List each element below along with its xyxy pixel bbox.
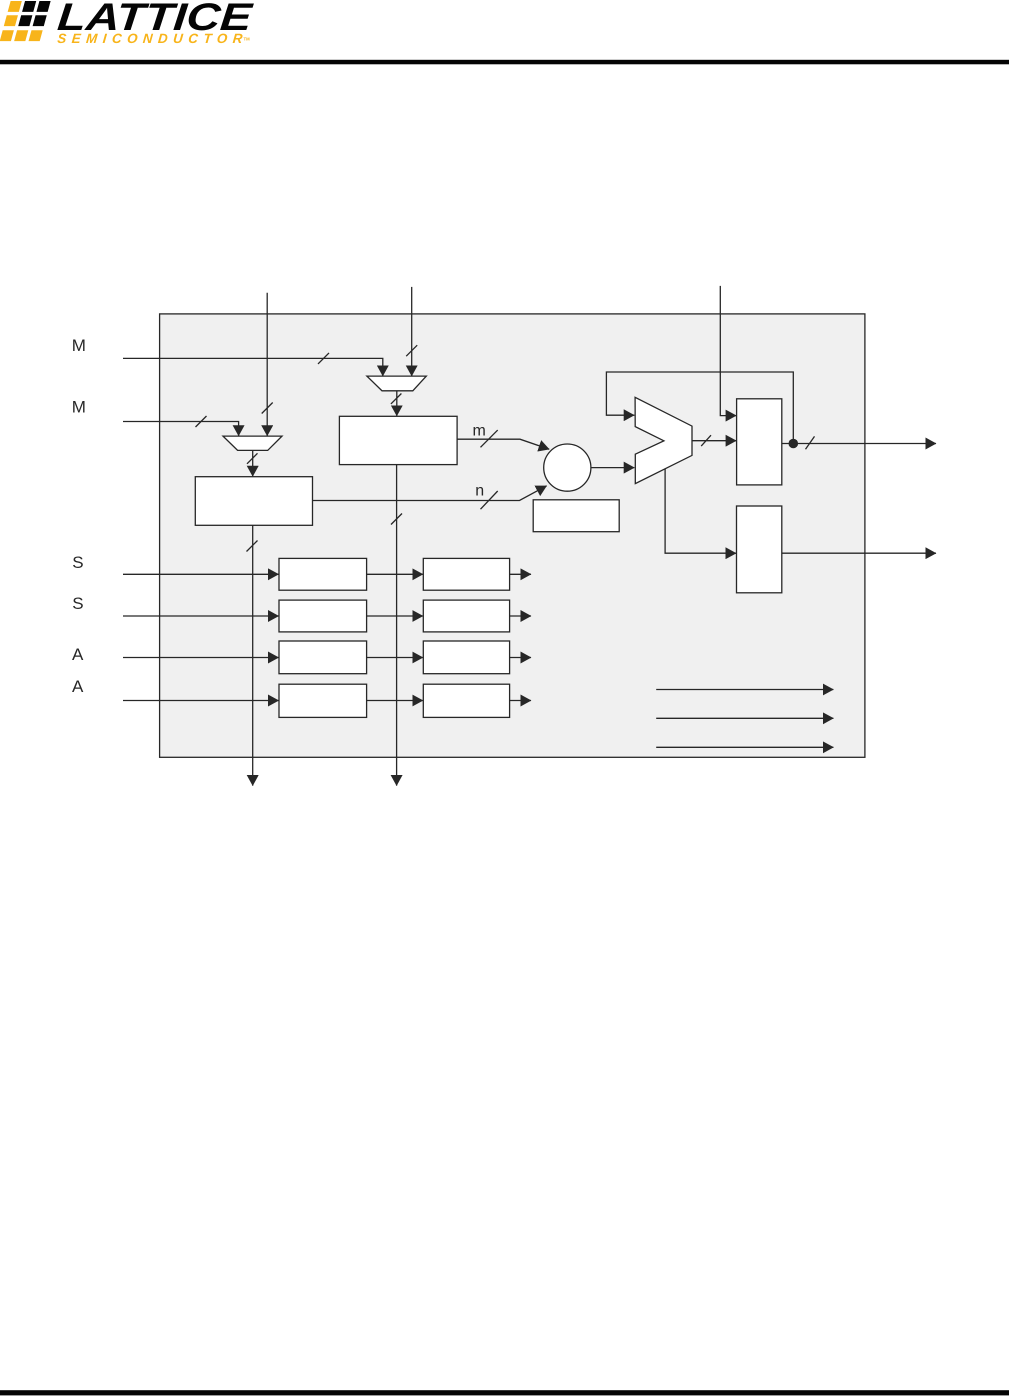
bus slash on mux A output bbox=[391, 394, 402, 404]
shift register stage 2 row 2 bbox=[423, 600, 509, 632]
bus slash on n wire bbox=[481, 491, 498, 509]
bus slash on mux B output bbox=[247, 453, 258, 464]
svg-text:m: m bbox=[473, 422, 486, 439]
bus slash on register B cascade wire bbox=[247, 541, 258, 552]
wire: block output arrow 3 bbox=[656, 746, 833, 748]
wire: stage2 output row 3 bbox=[510, 657, 531, 659]
input register B bbox=[195, 477, 312, 526]
wire: input A2 into shift register bbox=[123, 700, 279, 702]
bus slash on M2 wire bbox=[196, 416, 207, 427]
svg-text:TM: TM bbox=[244, 36, 251, 41]
ALU adder/subtractor chevron bbox=[635, 397, 692, 483]
shift register stage 1 row 1 bbox=[279, 558, 367, 590]
wire: register A output down to cascade out bbox=[396, 465, 398, 786]
svg-text:A: A bbox=[72, 645, 84, 664]
multiplier circle bbox=[544, 444, 591, 491]
wire: register B output down to cascade out bbox=[252, 525, 254, 785]
output register 1 bbox=[737, 399, 782, 485]
junction dot on register 1 output bbox=[789, 439, 799, 449]
wire: ALU lower output to output register 2 bbox=[665, 469, 736, 553]
shift register stage 1 row 2 bbox=[279, 600, 367, 632]
shift register stage 1 row 3 bbox=[279, 641, 367, 674]
wire: input M2 into mux B left port bbox=[123, 422, 239, 436]
wire: input S2 into shift register bbox=[123, 615, 279, 617]
wire: stage2 output row 4 bbox=[510, 700, 531, 702]
svg-text:n: n bbox=[475, 483, 484, 500]
bus slash on top input 1 bbox=[262, 403, 273, 414]
wire: ALU output into output register 1 bbox=[692, 440, 736, 442]
wire: bus n from register B to multiplier bbox=[313, 486, 547, 501]
Lattice Semiconductor logo: square grid bbox=[0, 1, 51, 41]
wire: top input 1 into mux B right port bbox=[266, 293, 268, 436]
DSP block boundary (shaded region) bbox=[160, 314, 865, 757]
mux A (multiplicand select) bbox=[367, 376, 426, 391]
bus slash on m wire bbox=[481, 430, 498, 447]
wire: block output arrow 2 bbox=[656, 717, 833, 719]
svg-text:A: A bbox=[72, 677, 84, 696]
shift register stage 2 row 3 bbox=[423, 641, 509, 674]
wire: top input 2 into mux A right port bbox=[411, 287, 413, 376]
input register A bbox=[339, 416, 457, 464]
wire: stage1 to stage2 row 4 bbox=[367, 700, 423, 702]
bus slash on M1 wire bbox=[318, 353, 329, 364]
bus slash on top input 2 bbox=[406, 345, 417, 356]
Lattice logo wordmark LATTICE bbox=[56, 0, 255, 39]
wire: stage1 to stage2 row 1 bbox=[367, 573, 423, 575]
wire: stage2 output row 2 bbox=[510, 615, 531, 617]
shift register stage 2 row 4 bbox=[423, 684, 509, 717]
bus slash on ALU output bbox=[701, 435, 711, 446]
wire: feedback from output register 1 to ALU input bbox=[606, 372, 793, 444]
pipeline register (below multiplier) bbox=[533, 500, 619, 532]
bus slash on register A cascade wire bbox=[391, 514, 402, 525]
footer rule bbox=[0, 1390, 1009, 1395]
shift register stage 2 row 1 bbox=[423, 558, 509, 590]
wire: bus m from register A to multiplier bbox=[457, 439, 549, 449]
wire: top input 3 into output register 1 bbox=[720, 286, 736, 416]
wire: input S1 into shift register bbox=[123, 573, 279, 575]
svg-text:S: S bbox=[72, 594, 83, 613]
Lattice logo wordmark SEMICONDUCTOR bbox=[57, 31, 244, 46]
output register 2 bbox=[737, 506, 782, 593]
wire: mux A output into input register A bbox=[396, 391, 398, 416]
svg-text:M: M bbox=[72, 398, 86, 417]
wire: input A1 into shift register bbox=[123, 657, 279, 659]
wire: block output arrow 1 bbox=[656, 689, 833, 691]
mux B (multiplier select) bbox=[223, 436, 282, 450]
svg-text:M: M bbox=[72, 336, 86, 355]
shift register stage 1 row 4 bbox=[279, 684, 367, 717]
wire: stage2 output row 1 bbox=[510, 573, 531, 575]
wire: output register 2 to block output bbox=[782, 552, 936, 554]
bus slash on register 1 output bbox=[806, 436, 815, 449]
wire: stage1 to stage2 row 3 bbox=[367, 657, 423, 659]
header rule bbox=[0, 60, 1009, 65]
wire: input M1 into mux A left port bbox=[123, 358, 383, 376]
svg-text:S: S bbox=[72, 553, 83, 572]
wire: stage1 to stage2 row 2 bbox=[367, 615, 423, 617]
wire: output register 1 to block output bbox=[782, 443, 936, 445]
wire: mux B output into input register B bbox=[252, 450, 254, 476]
wire: multiplier output into ALU bbox=[591, 467, 634, 469]
